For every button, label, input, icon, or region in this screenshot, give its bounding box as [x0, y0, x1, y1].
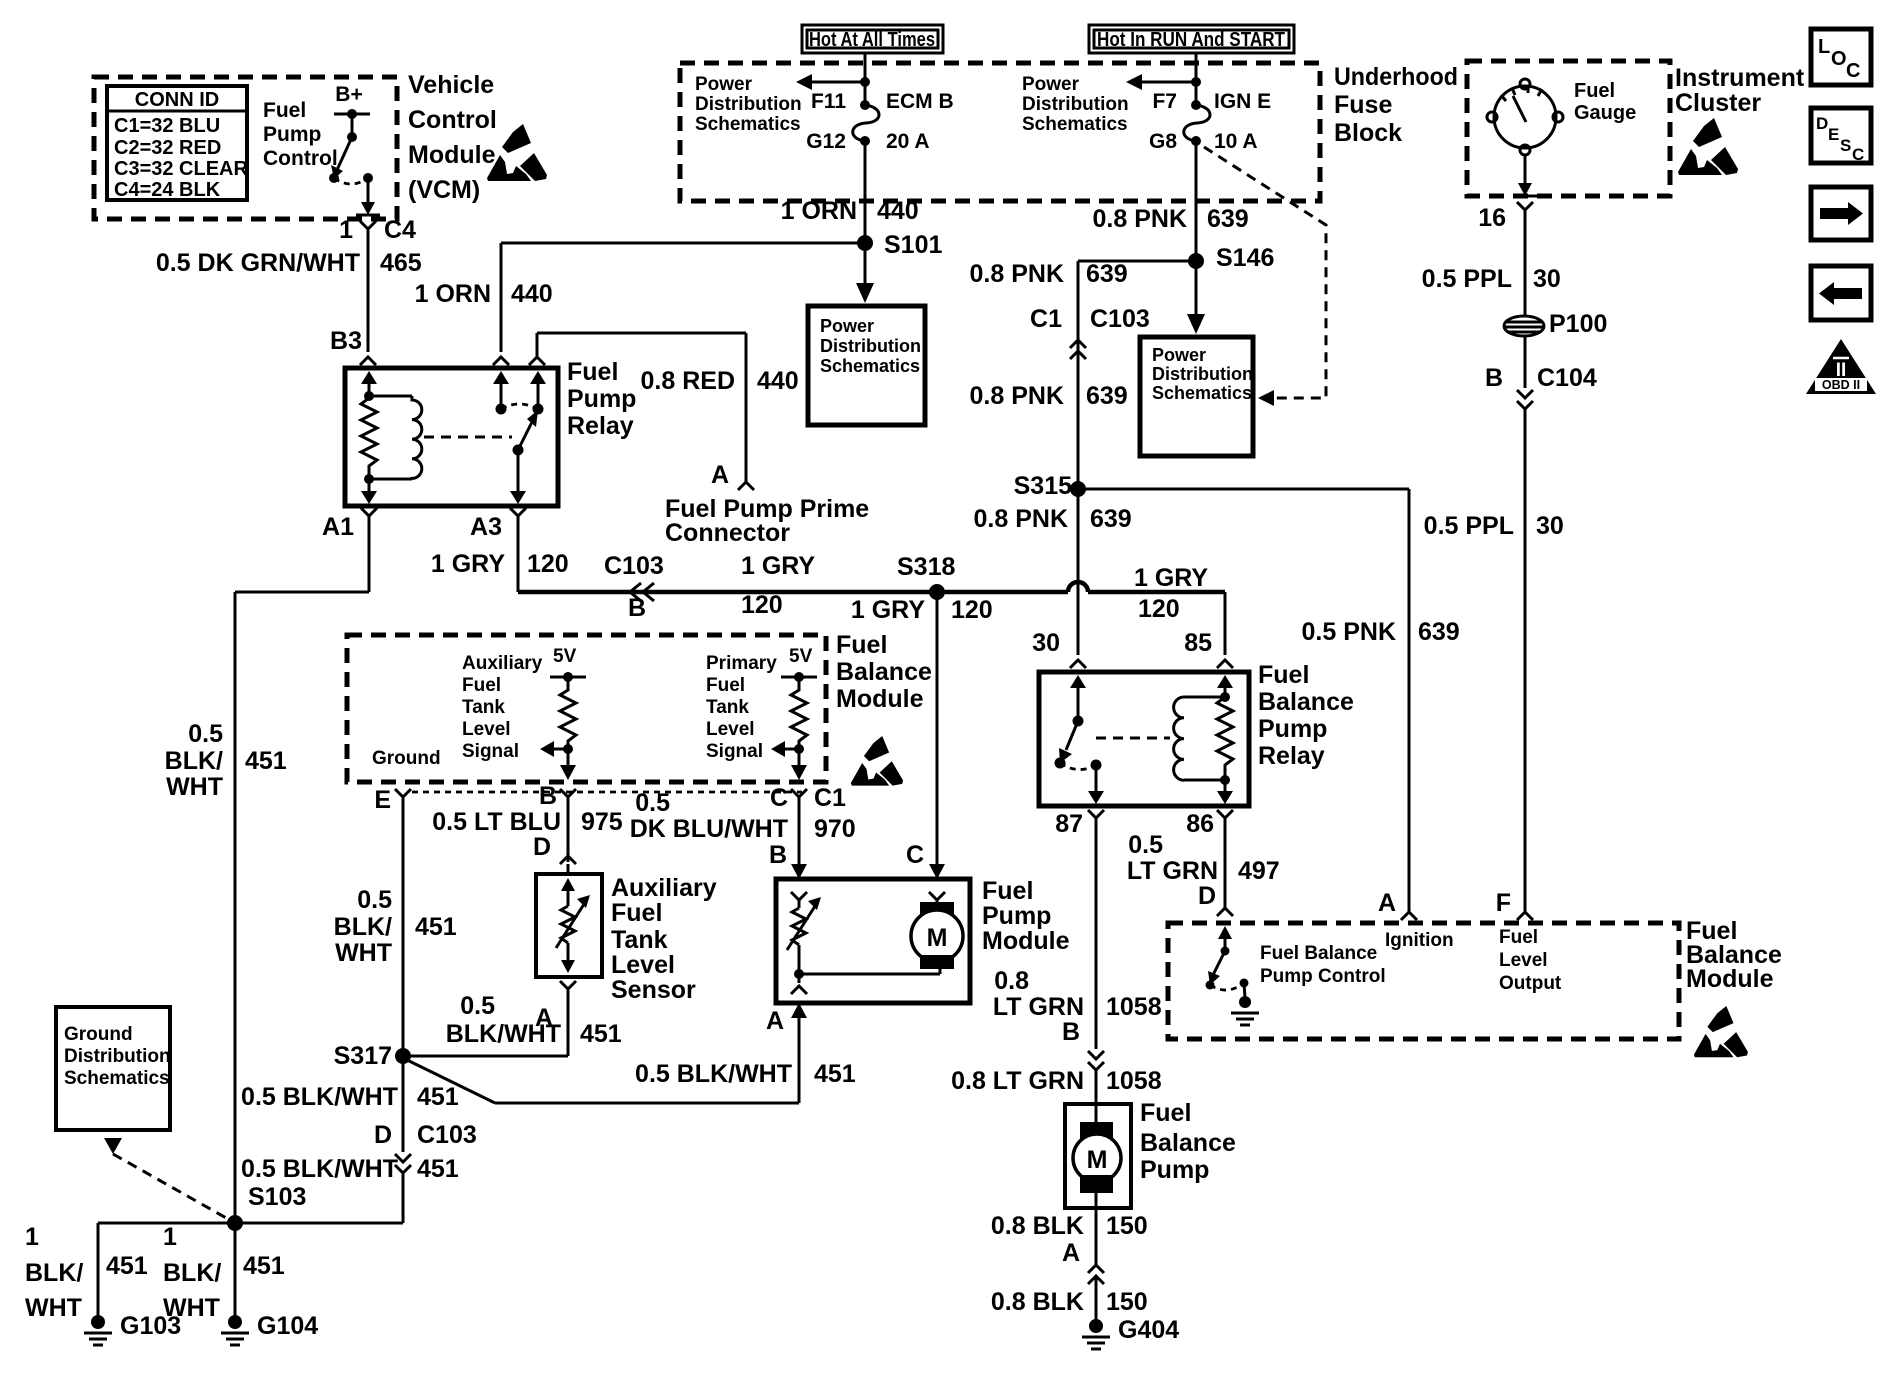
svg-text:1: 1 [25, 1223, 39, 1251]
svg-text:639: 639 [1086, 260, 1128, 288]
svg-text:B: B [628, 594, 646, 622]
svg-text:Output: Output [1499, 973, 1562, 994]
svg-text:1 GRY: 1 GRY [1134, 564, 1208, 592]
module Instrument Cluster dashed box [1467, 61, 1805, 196]
svg-text:Module: Module [408, 141, 496, 169]
label box Hot At All Times [802, 25, 943, 53]
svg-text:451: 451 [106, 1252, 148, 1280]
arrow S146 into power distribution box [1187, 261, 1205, 334]
wire 451 BLK/WHT fuel pump module A to S317 [403, 1058, 856, 1103]
wire 497 LT GRN relay 86 to module D [1127, 818, 1280, 916]
svg-text:120: 120 [527, 550, 569, 578]
svg-text:G8: G8 [1149, 130, 1177, 153]
svg-text:0.5 LT BLU: 0.5 LT BLU [432, 808, 561, 836]
connector C104 pin B [1485, 336, 1597, 409]
label Fuel Pump Control [263, 99, 338, 170]
5V supply primary sender [771, 646, 817, 780]
svg-text:20 A: 20 A [886, 130, 930, 153]
svg-text:639: 639 [1086, 382, 1128, 410]
svg-text:BLK/: BLK/ [25, 1259, 83, 1287]
svg-text:Relay: Relay [1258, 742, 1325, 770]
svg-text:L: L [1818, 36, 1830, 58]
svg-text:B: B [1485, 364, 1503, 392]
svg-text:Ground: Ground [64, 1024, 133, 1045]
svg-text:Connector: Connector [665, 519, 790, 547]
motor Fuel Balance Pump [1065, 1099, 1236, 1208]
relay coil (pins 85/86) [1096, 675, 1233, 804]
svg-text:1: 1 [339, 216, 353, 244]
pin 87 of balance relay [1055, 810, 1104, 838]
dashed reference line fuse block to power distribution [1204, 147, 1326, 406]
relay switch (pins 30/87) [1055, 675, 1105, 804]
svg-text:Fuel: Fuel [982, 877, 1033, 905]
label Power Distribution Schematics (left) [695, 74, 802, 135]
svg-text:120: 120 [1138, 595, 1180, 623]
node S318 [897, 553, 955, 600]
wire 639 PNK S315 down to relay pin 30 [974, 489, 1132, 668]
svg-text:0.5: 0.5 [460, 992, 495, 1020]
svg-text:Distribution: Distribution [695, 94, 802, 115]
svg-text:E: E [1828, 125, 1839, 144]
ESD symbol fuel balance module upper [851, 736, 903, 786]
svg-text:S101: S101 [884, 231, 942, 259]
relay Fuel Balance Pump Relay box [1039, 661, 1354, 806]
svg-text:BLK/: BLK/ [165, 747, 223, 775]
svg-text:Ignition: Ignition [1385, 930, 1454, 951]
wire 451 BLK/WHT S103 to G104 [163, 1223, 285, 1322]
icon OBD II triangle [1806, 339, 1876, 394]
svg-text:DK BLU/WHT: DK BLU/WHT [630, 815, 788, 843]
switch fuel pump control (inside VCM) [329, 114, 373, 184]
svg-text:451: 451 [417, 1083, 459, 1111]
svg-text:C103: C103 [604, 552, 664, 580]
wire 440 RED relay to prime connector [529, 333, 799, 482]
svg-text:Fuel: Fuel [706, 675, 745, 696]
node B+ [334, 83, 370, 119]
ESD symbol instrument cluster [1678, 118, 1738, 175]
svg-text:C: C [770, 784, 788, 812]
svg-text:Fuel Balance: Fuel Balance [1260, 943, 1377, 964]
svg-text:Hot At All Times: Hot At All Times [809, 29, 935, 51]
icon DESC [1811, 108, 1871, 164]
svg-text:0.5 BLK/WHT: 0.5 BLK/WHT [635, 1060, 792, 1088]
svg-text:465: 465 [380, 249, 422, 277]
relay switch contacts and arm [424, 371, 546, 504]
svg-text:451: 451 [417, 1155, 459, 1183]
switch Fuel Balance Pump Control (inside module) [1206, 926, 1386, 1025]
label Primary Fuel Tank Level Signal [706, 653, 777, 762]
wire 451 BLK/WHT sensor A to S317 [403, 989, 622, 1056]
label box Hot In RUN And START [1089, 25, 1294, 53]
svg-text:S318: S318 [897, 553, 955, 581]
svg-text:Level: Level [611, 951, 675, 979]
wire 30 PPL gauge to P100 [1422, 210, 1561, 316]
wire 150 BLK pump to connector A [991, 1208, 1148, 1284]
svg-text:970: 970 [814, 815, 856, 843]
svg-text:F7: F7 [1152, 90, 1177, 113]
icon arrow right [1811, 187, 1871, 240]
svg-text:0.8 LT GRN: 0.8 LT GRN [951, 1067, 1084, 1095]
wire 150 BLK to ground G404 [991, 1276, 1148, 1322]
svg-text:B: B [1062, 1018, 1080, 1046]
svg-text:C: C [906, 841, 924, 869]
svg-text:Distribution: Distribution [1022, 94, 1129, 115]
svg-text:B: B [539, 782, 557, 810]
pin 86 of balance relay [1186, 810, 1233, 838]
svg-text:G104: G104 [257, 1312, 318, 1340]
wire 639 PNK fuse IGN to S146 [1093, 141, 1249, 261]
wire 440 ORN fuse to S101 [781, 141, 919, 268]
svg-text:0.8 BLK: 0.8 BLK [991, 1288, 1084, 1316]
svg-text:G12: G12 [806, 130, 846, 153]
wire S101 branch to relay (1 ORN 440) [415, 243, 865, 365]
svg-text:Level: Level [1499, 950, 1548, 971]
svg-text:Auxiliary: Auxiliary [462, 653, 543, 674]
relay coil circuit (resistor + winding) [361, 371, 422, 504]
svg-text:440: 440 [757, 367, 799, 395]
svg-text:87: 87 [1055, 810, 1083, 838]
svg-text:Fuel: Fuel [1499, 927, 1538, 948]
svg-text:WHT: WHT [166, 773, 223, 801]
svg-text:Cluster: Cluster [1675, 89, 1761, 117]
wire 1058 LT GRN relay 87 down [993, 818, 1162, 1049]
module Underhood Fuse Block dashed box [680, 63, 1458, 201]
svg-text:Auxiliary: Auxiliary [611, 874, 717, 902]
svg-text:Block: Block [1334, 119, 1402, 147]
svg-text:Schematics: Schematics [695, 114, 801, 135]
svg-text:Fuel: Fuel [567, 358, 618, 386]
svg-text:5V: 5V [789, 646, 813, 667]
connector C103 pin B on GRY wire [604, 552, 815, 622]
svg-text:B+: B+ [335, 83, 362, 106]
node S146 [1188, 244, 1274, 272]
svg-text:639: 639 [1090, 505, 1132, 533]
label Power Distribution Schematics (right) [1022, 74, 1129, 135]
grommet P100 [1504, 310, 1607, 338]
svg-text:Module: Module [982, 927, 1070, 955]
svg-text:1058: 1058 [1106, 1067, 1162, 1095]
svg-text:BLK/WHT: BLK/WHT [446, 1020, 561, 1048]
svg-text:Sensor: Sensor [611, 976, 696, 1004]
svg-text:Distribution: Distribution [1152, 364, 1253, 384]
fuel pump module internal level sensor [787, 892, 940, 994]
svg-text:LT GRN: LT GRN [993, 993, 1084, 1021]
svg-text:O: O [1831, 48, 1847, 70]
svg-text:D: D [374, 1121, 392, 1149]
wire hot feed to fuse ECM B [796, 53, 870, 105]
label Vehicle Control Module (VCM) [408, 71, 497, 204]
svg-text:Power: Power [820, 316, 874, 336]
svg-text:Tank: Tank [611, 926, 668, 954]
svg-text:S: S [1840, 136, 1851, 155]
svg-text:S103: S103 [248, 1183, 306, 1211]
ESD symbol fuel balance module lower [1694, 1006, 1748, 1057]
svg-text:C2=32 RED: C2=32 RED [114, 137, 221, 159]
svg-text:0.5 PNK: 0.5 PNK [1302, 618, 1396, 646]
svg-text:451: 451 [245, 747, 287, 775]
svg-text:1: 1 [163, 1223, 177, 1251]
svg-text:0.8 PNK: 0.8 PNK [974, 505, 1068, 533]
svg-text:Pump: Pump [263, 123, 321, 146]
svg-text:Pump: Pump [1140, 1156, 1209, 1184]
wire hot feed to fuse IGN E [1126, 53, 1201, 105]
connector C103 pin D [374, 1121, 477, 1173]
svg-text:30: 30 [1032, 629, 1060, 657]
svg-text:0.5 DK GRN/WHT: 0.5 DK GRN/WHT [156, 249, 360, 277]
svg-text:Underhood: Underhood [1334, 63, 1458, 91]
svg-text:30: 30 [1533, 265, 1561, 293]
svg-text:E: E [374, 786, 391, 814]
svg-text:C4: C4 [384, 216, 416, 244]
node S101 [857, 231, 942, 259]
wire 1058 LT GRN to fuel balance pump [951, 1067, 1162, 1104]
svg-text:Control: Control [408, 106, 497, 134]
ground G404 [1082, 1316, 1179, 1349]
svg-text:451: 451 [243, 1252, 285, 1280]
svg-text:Balance: Balance [1140, 1129, 1236, 1157]
svg-text:0.5 BLK/WHT: 0.5 BLK/WHT [241, 1155, 398, 1183]
svg-text:639: 639 [1207, 205, 1249, 233]
svg-text:Pump: Pump [982, 902, 1051, 930]
svg-text:Fuel: Fuel [611, 899, 662, 927]
svg-text:Fuel: Fuel [1140, 1099, 1191, 1127]
wire 120 GRY branch to balance pump relay 85 [1134, 564, 1233, 668]
svg-text:A1: A1 [322, 513, 354, 541]
svg-text:S317: S317 [334, 1042, 392, 1070]
svg-text:Schematics: Schematics [820, 356, 920, 376]
arrow S101 into power distribution box [856, 268, 874, 303]
ground G103 [84, 1312, 181, 1345]
svg-text:BLK/: BLK/ [334, 913, 392, 941]
svg-text:A: A [1378, 889, 1396, 917]
svg-text:1 GRY: 1 GRY [431, 550, 505, 578]
svg-text:0.8 PNK: 0.8 PNK [970, 260, 1064, 288]
wire gauge output to pin 16 [1478, 155, 1537, 232]
gauge Fuel Gauge [1487, 79, 1636, 155]
svg-text:Tank: Tank [462, 697, 505, 718]
svg-text:Signal: Signal [706, 741, 763, 762]
svg-text:C104: C104 [1537, 364, 1597, 392]
svg-text:975: 975 [581, 808, 623, 836]
svg-text:Primary: Primary [706, 653, 777, 674]
wire 120 GRY relay A3 to C103 [431, 516, 569, 592]
svg-text:Fuel: Fuel [462, 675, 501, 696]
svg-text:ECM B: ECM B [886, 90, 954, 113]
svg-text:S315: S315 [1014, 472, 1072, 500]
svg-text:497: 497 [1238, 857, 1280, 885]
svg-text:0.5 BLK/WHT: 0.5 BLK/WHT [241, 1083, 398, 1111]
wire 451 BLK/WHT S317 to C103 D [241, 1056, 459, 1152]
svg-text:86: 86 [1186, 810, 1214, 838]
svg-text:30: 30 [1536, 512, 1564, 540]
svg-text:Pump: Pump [1258, 715, 1327, 743]
svg-text:IGN E: IGN E [1214, 90, 1271, 113]
svg-text:Distribution: Distribution [64, 1046, 171, 1067]
svg-text:1058: 1058 [1106, 993, 1162, 1021]
svg-text:0.5: 0.5 [357, 886, 392, 914]
svg-text:Distribution: Distribution [820, 336, 921, 356]
svg-text:0.5 PPL: 0.5 PPL [1422, 265, 1512, 293]
label Fuel Level Output [1499, 927, 1562, 994]
svg-text:F11: F11 [811, 90, 846, 113]
node S317 [334, 1042, 411, 1070]
svg-text:0.5: 0.5 [188, 720, 223, 748]
wire 451 BLK/WHT relay A1 down-left [165, 516, 369, 1223]
svg-text:A3: A3 [470, 513, 502, 541]
svg-text:WHT: WHT [25, 1294, 82, 1322]
connector C1 row (thin dashed line) [412, 791, 802, 794]
svg-text:85: 85 [1184, 629, 1212, 657]
svg-text:Module: Module [1686, 965, 1774, 993]
svg-text:WHT: WHT [163, 1294, 220, 1322]
svg-text:150: 150 [1106, 1212, 1148, 1240]
box Power Distribution Schematics (left) [808, 306, 925, 425]
svg-text:Fuel: Fuel [836, 631, 887, 659]
svg-text:Relay: Relay [567, 412, 634, 440]
svg-text:0.5: 0.5 [635, 789, 670, 817]
svg-text:G404: G404 [1118, 1316, 1179, 1344]
svg-text:Fuel: Fuel [1574, 80, 1615, 102]
connector C4 pin 1 [339, 216, 416, 244]
svg-text:Level: Level [706, 719, 755, 740]
svg-text:WHT: WHT [335, 939, 392, 967]
module Fuel Balance Module (lower) dashed box [1168, 917, 1782, 1039]
svg-text:C3=32 CLEAR: C3=32 CLEAR [114, 158, 248, 180]
svg-text:A: A [711, 461, 729, 489]
svg-text:A: A [766, 1007, 784, 1035]
svg-text:451: 451 [814, 1060, 856, 1088]
pin C of module connector [770, 784, 846, 812]
svg-text:Signal: Signal [462, 741, 519, 762]
box Ground Distribution Schematics [56, 1007, 228, 1219]
svg-text:CONN ID: CONN ID [135, 89, 219, 111]
svg-text:C: C [1846, 60, 1860, 82]
svg-text:0.8 RED: 0.8 RED [641, 367, 735, 395]
wire 120 GRY horizontal run to S318 [518, 582, 1225, 592]
svg-text:Power: Power [1152, 345, 1206, 365]
svg-text:OBD II: OBD II [1822, 378, 1860, 392]
wire VCM B+ switch to C4 exit [356, 178, 380, 215]
svg-text:1 GRY: 1 GRY [741, 552, 815, 580]
svg-text:Power: Power [695, 74, 753, 95]
svg-text:B: B [769, 841, 787, 869]
svg-text:D: D [533, 833, 551, 861]
svg-text:Control: Control [263, 147, 338, 170]
sensor rheostat symbol (auxiliary) [556, 878, 590, 973]
ground G104 [221, 1312, 318, 1345]
svg-text:D: D [1816, 114, 1828, 133]
svg-text:Instrument: Instrument [1675, 64, 1805, 92]
svg-text:A: A [1062, 1239, 1080, 1267]
ESD symbol VCM [487, 124, 547, 181]
wire 451 BLK/WHT module E to S317 [334, 797, 457, 1056]
module VCM dashed box [94, 77, 397, 219]
svg-text:639: 639 [1418, 618, 1460, 646]
pin E of module connector [374, 786, 411, 814]
svg-text:Fuel: Fuel [1258, 661, 1309, 689]
icon arrow left [1811, 266, 1871, 320]
svg-text:451: 451 [415, 913, 457, 941]
pin A3 of relay [470, 508, 526, 541]
wire 30 PPL C104 to fuel balance module F [1424, 409, 1564, 912]
fuse IGN E F7 10A [1149, 90, 1271, 153]
svg-text:F: F [1496, 889, 1511, 917]
svg-text:0.8 BLK: 0.8 BLK [991, 1212, 1084, 1240]
wire 451 BLK/WHT C103 to S103 [235, 1155, 459, 1223]
svg-text:120: 120 [951, 596, 993, 624]
sensor Auxiliary Fuel Tank Level Sensor box [536, 874, 717, 1004]
svg-text:S146: S146 [1216, 244, 1274, 272]
svg-text:BLK/: BLK/ [163, 1259, 221, 1287]
svg-text:Ground: Ground [372, 748, 441, 769]
svg-text:Balance: Balance [1258, 688, 1354, 716]
module Fuel Balance Module dashed box [347, 631, 932, 782]
svg-text:451: 451 [580, 1020, 622, 1048]
svg-text:Pump Control: Pump Control [1260, 966, 1386, 987]
svg-text:Gauge: Gauge [1574, 102, 1636, 124]
box Power Distribution Schematics (right) [1140, 337, 1253, 456]
label Auxiliary Fuel Tank Level Signal [462, 653, 543, 762]
svg-text:1 GRY: 1 GRY [851, 596, 925, 624]
svg-text:Hot In RUN And START: Hot In RUN And START [1097, 29, 1285, 51]
pin A1 of relay [322, 508, 377, 541]
svg-text:Fuel: Fuel [263, 99, 306, 122]
svg-text:Schematics: Schematics [64, 1068, 170, 1089]
svg-text:5V: 5V [553, 646, 577, 667]
svg-text:C1: C1 [814, 784, 846, 812]
wire S146 branch left and down (0.8 PNK 639) [970, 260, 1196, 489]
svg-text:Schematics: Schematics [1022, 114, 1128, 135]
wire 465 DK GRN/WHT (VCM C4 to relay B3) [156, 229, 422, 365]
connector A Fuel Pump Prime Connector [665, 461, 869, 547]
svg-text:Schematics: Schematics [1152, 383, 1252, 403]
svg-text:0.5 PPL: 0.5 PPL [1424, 512, 1514, 540]
wire 975 LT BLU module B to sensor D [432, 797, 623, 874]
svg-text:B3: B3 [330, 327, 362, 355]
svg-text:0.8 PNK: 0.8 PNK [970, 382, 1064, 410]
wire 639 PNK S315 branch right [1078, 489, 1460, 912]
svg-text:150: 150 [1106, 1288, 1148, 1316]
svg-text:440: 440 [511, 280, 553, 308]
pin A of fuel pump module [766, 1003, 807, 1103]
svg-text:D: D [1198, 882, 1216, 910]
svg-text:Power: Power [1022, 74, 1080, 95]
svg-text:(VCM): (VCM) [408, 176, 480, 204]
module Fuel Pump Module box [776, 877, 1070, 1003]
fuse ECM B F11 20A [806, 90, 953, 153]
svg-text:10 A: 10 A [1214, 130, 1258, 153]
connector F of fuel balance module [1496, 889, 1533, 920]
svg-text:440: 440 [877, 197, 919, 225]
wire 970 DK BLU/WHT module C to fuel pump module B [630, 789, 856, 879]
svg-text:0.8 PNK: 0.8 PNK [1093, 205, 1187, 233]
svg-text:C4=24 BLK: C4=24 BLK [114, 179, 221, 201]
svg-text:16: 16 [1478, 204, 1506, 232]
svg-text:C1: C1 [1030, 305, 1062, 333]
svg-text:Module: Module [836, 685, 924, 713]
connector B on 1058 wire [1062, 1018, 1104, 1070]
connector C1 C103 on PNK wire [970, 305, 1150, 410]
svg-text:C103: C103 [1090, 305, 1150, 333]
CONN ID table [107, 86, 248, 201]
node S103 [227, 1183, 306, 1231]
svg-text:P100: P100 [1549, 310, 1607, 338]
fuel pump module internal motor [911, 892, 963, 969]
svg-text:120: 120 [741, 591, 783, 619]
svg-text:0.5: 0.5 [1128, 831, 1163, 859]
pin B of module connector [539, 782, 576, 810]
svg-text:1 ORN: 1 ORN [415, 280, 491, 308]
